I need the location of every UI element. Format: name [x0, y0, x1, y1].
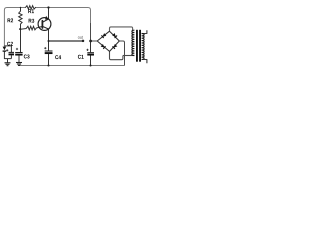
label R1	[28, 9, 31, 13]
wire emitter lead down through out node to C4	[48, 29, 50, 51]
wire bottom rail	[19, 65, 125, 67]
capacitor C3	[15, 48, 22, 55]
label C4	[55, 55, 58, 59]
label C3	[24, 54, 27, 58]
wire R2 bottom lead to R3	[21, 24, 27, 29]
capacitor C4	[44, 47, 52, 53]
wire C3 top lead	[20, 29, 22, 52]
wire C3 bottom lead	[18, 56, 20, 63]
ground symbol below C3	[16, 63, 22, 66]
wire C1 node to bridge left corner	[91, 40, 98, 42]
diode bridge top-left	[101, 33, 106, 38]
resistor R3	[27, 26, 37, 30]
capacitor C1	[86, 49, 94, 55]
wire bridge right corner down to bottom rail	[119, 41, 124, 66]
node C1 on rail	[89, 64, 91, 66]
wire left frame and top rail	[4, 8, 90, 47]
wire C4 bottom lead	[48, 54, 50, 66]
wire transformer primary bottom lead	[142, 60, 147, 64]
node R2 top on rail	[20, 7, 22, 9]
node emitter-out	[48, 40, 50, 42]
zener diode	[3, 47, 7, 51]
label R3	[29, 19, 32, 23]
node R2-R3-C3	[19, 28, 21, 30]
transformer secondary winding	[132, 30, 135, 55]
node C4 on rail	[47, 64, 49, 66]
wire bridge bottom corner staircase	[110, 51, 123, 59]
node bridge left / C1	[89, 40, 92, 43]
node collector on rail	[47, 6, 49, 8]
wire bridge top corner to transformer secondary top	[110, 27, 133, 31]
capacitor C2	[6, 49, 14, 54]
wire R2 top lead	[20, 8, 22, 12]
label R2	[8, 18, 11, 22]
transformer primary winding	[142, 34, 145, 60]
transformer core	[136, 30, 141, 62]
resistor R1	[26, 6, 36, 9]
transistor Q1	[38, 18, 51, 31]
resistor R2	[19, 11, 22, 24]
label out	[78, 36, 80, 38]
label C2	[7, 42, 10, 46]
transistor arrow	[45, 16, 48, 20]
wire collector lead	[48, 8, 50, 20]
diode bridge bottom-left	[101, 44, 106, 49]
diode bridge top-right	[112, 33, 117, 38]
wire zener bottom, ground bus, C2 bottom lead	[4, 52, 11, 63]
wire out	[49, 40, 83, 42]
wire R3 to base	[36, 26, 42, 28]
wire transformer primary top lead	[142, 30, 147, 33]
label C1	[78, 55, 81, 59]
wire C1 bottom lead	[90, 55, 92, 65]
wire rectifier dc+ vertical	[90, 23, 92, 41]
ground symbol below zener/C2	[5, 63, 11, 66]
wire C1 top lead	[90, 41, 92, 52]
wire C2 stub	[4, 46, 11, 52]
diode bridge bottom-right	[112, 44, 117, 49]
terminal out	[82, 40, 85, 43]
bridge rectifier outline	[97, 31, 119, 51]
wire transformer secondary bottom lead	[123, 55, 134, 57]
